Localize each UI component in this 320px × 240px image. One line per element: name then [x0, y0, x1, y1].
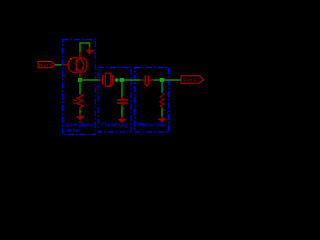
resistor R1 (emitter resistor)	[73, 94, 83, 110]
ground arrow below C1	[118, 116, 126, 123]
wire: junction down to capacitor C1	[121, 81, 123, 98]
pin tick after crystal	[115, 78, 117, 81]
label: Low phase noise	[66, 123, 94, 134]
node: output junction	[160, 78, 164, 82]
wire: junction to crystal (feedback output of amp)	[80, 79, 99, 81]
svg-text:Phase Lag: Phase Lag	[101, 122, 128, 128]
stage box B1 (low phase noise amplifier)	[62, 40, 95, 135]
ground arrow below R2	[158, 116, 166, 123]
wire: cap C2 to node and node to Port 2	[153, 79, 181, 81]
wire: capacitor C1 to ground	[121, 106, 123, 117]
ground arrow below R1	[76, 113, 83, 122]
label: Phase lead	[138, 122, 166, 128]
port Port 1	[38, 62, 55, 68]
crystal X1	[99, 73, 115, 86]
node: phase-lag output junction	[120, 78, 124, 82]
capacitor C2 (series, phase lead)	[141, 75, 154, 86]
svg-text:Phase lead: Phase lead	[138, 122, 166, 128]
label: Phase Lag	[101, 122, 128, 128]
resistor R2 (shunt, phase lead)	[160, 93, 164, 109]
wire: crystal to node, node to series cap	[118, 79, 141, 81]
port Port 2	[181, 76, 204, 83]
svg-text:noise: noise	[66, 128, 80, 134]
wire: resistor R2 to ground	[161, 108, 163, 116]
svg-text:Port 1: Port 1	[39, 63, 52, 68]
wire: Port1 to box B1	[55, 64, 62, 66]
wire: collector to supply arrow	[80, 43, 90, 52]
svg-text:Port 2: Port 2	[183, 78, 196, 83]
power/ground arrow at collector	[86, 47, 93, 55]
stage box B2 (phase lag network)	[98, 68, 131, 133]
stage box B3 (phase lead network)	[135, 68, 169, 133]
wire: emitter to junction and down to resistor	[79, 79, 81, 95]
node: emitter junction	[78, 78, 82, 82]
capacitor C1 (shunt, phase lag)	[117, 97, 127, 107]
wire: junction down to resistor R2	[161, 81, 163, 93]
transistor Q1 (NPN, common emitter)	[63, 52, 87, 79]
wire: resistor R1 to ground	[79, 110, 81, 114]
